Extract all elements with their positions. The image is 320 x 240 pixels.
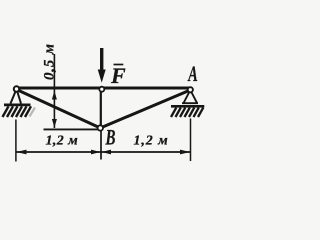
center node circle <box>99 87 104 92</box>
left pin support triangle <box>11 89 22 104</box>
support A triangle <box>182 90 198 103</box>
wire top beam member <box>15 86 193 89</box>
dim down arrowhead <box>52 119 57 128</box>
svg-text:1,2 м: 1,2 м <box>46 133 79 148</box>
node B level extension line <box>44 128 98 130</box>
node B circle <box>98 125 103 130</box>
left ground hatching <box>3 106 32 117</box>
left pin circle <box>14 86 19 91</box>
dim arrow right end <box>180 150 190 155</box>
left ground hatch smudge <box>30 108 36 117</box>
svg-text:1,2 м: 1,2 м <box>134 134 169 149</box>
support A ground hatching <box>171 108 203 117</box>
dim arrow center pointing right <box>91 150 100 155</box>
left ground line <box>4 104 31 107</box>
dim up arrowhead <box>52 91 57 100</box>
svg-text:B: B <box>105 125 116 150</box>
bottom dimension line <box>16 151 191 153</box>
svg-text:0,5 м: 0,5 м <box>41 43 57 80</box>
dim arrow center pointing left <box>102 150 111 155</box>
wire diagonal member node B to support A <box>100 90 190 128</box>
force F arrowhead <box>98 70 106 83</box>
wire diagonal member left pin to node B <box>17 90 101 129</box>
right extension line <box>190 119 192 162</box>
force F arrow shaft <box>100 48 103 71</box>
dim arrow left end <box>16 150 26 155</box>
support A ground slab top line <box>171 105 204 108</box>
F macron overline <box>114 64 124 66</box>
wire vertical member center node to node B <box>100 89 102 128</box>
left extension line <box>15 120 17 162</box>
svg-text:A: A <box>187 61 198 86</box>
svg-text:F: F <box>110 63 126 88</box>
vertical dimension line 0,5m <box>53 54 55 128</box>
center extension line <box>100 131 102 160</box>
support A pin circle <box>188 87 193 92</box>
